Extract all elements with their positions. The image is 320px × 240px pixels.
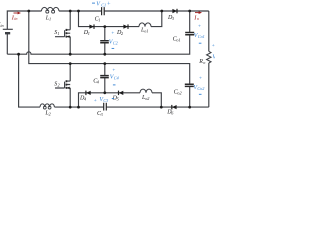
wire bottom rail right segment xyxy=(107,106,209,108)
svg-text:+: + xyxy=(107,1,111,7)
wire D1 branch from top rail xyxy=(79,11,140,27)
wire bottom rail left segment xyxy=(55,106,104,108)
wire Lo1 to top rail corner xyxy=(151,11,162,27)
label VC1 blue xyxy=(92,2,95,4)
battery Vin short plate xyxy=(5,32,10,34)
red current arrows xyxy=(14,11,203,14)
svg-text:4: 4 xyxy=(97,79,99,84)
wire Co1 top lead xyxy=(189,11,191,32)
svg-text:C1: C1 xyxy=(101,2,106,7)
inductor L2 coil xyxy=(40,104,54,107)
junction dots xyxy=(27,10,30,13)
svg-text:o2: o2 xyxy=(145,96,149,101)
svg-text:2: 2 xyxy=(58,82,60,87)
capacitor C1 plates xyxy=(102,7,105,15)
arrow Io xyxy=(195,12,200,14)
svg-text:C2: C2 xyxy=(113,41,118,46)
capacitor C2 plates xyxy=(100,41,109,43)
diode D5 triangle xyxy=(119,91,124,95)
diode D3 triangle xyxy=(172,9,177,13)
resistor Ro zigzag xyxy=(207,51,211,63)
wire rail1 with hop over x28.8 xyxy=(7,35,189,54)
wire Co2 bottom lead xyxy=(189,87,191,108)
inductor L1 coil xyxy=(42,7,59,11)
wire rail2 from top-rail dot down and right xyxy=(29,11,190,84)
wire C4 column xyxy=(104,64,106,93)
svg-text:Co1: Co1 xyxy=(198,34,205,39)
svg-text:Co2: Co2 xyxy=(197,86,204,91)
wire top rail L1 to C1 xyxy=(59,10,102,12)
wire bottom rail to left corner up xyxy=(19,54,40,107)
mosfet S1 gate xyxy=(55,30,65,36)
svg-text:4: 4 xyxy=(84,97,86,102)
wire right vertical above Ro xyxy=(208,11,210,51)
capacitor Co1 plates xyxy=(185,33,194,35)
wire right vertical below Ro xyxy=(208,63,210,107)
svg-text:2: 2 xyxy=(121,31,123,36)
svg-text:+: + xyxy=(111,31,115,37)
battery Vin long plate xyxy=(3,28,13,30)
diode D5 cathode bar xyxy=(118,91,120,96)
svg-text:+: + xyxy=(112,67,116,73)
svg-text:1: 1 xyxy=(49,16,51,21)
diode D4 cathode bar xyxy=(85,91,87,96)
diode D2 cathode bar xyxy=(127,24,129,29)
svg-text:1: 1 xyxy=(58,31,60,36)
wire Lo2 to bottom rail corner xyxy=(152,93,161,107)
battery Vin top lead xyxy=(7,11,41,29)
wire C2 column xyxy=(104,27,106,55)
wire top rail C1 to right corner xyxy=(104,10,209,12)
inductor Lo1 humps xyxy=(139,23,151,27)
mosfet S2 gate xyxy=(55,82,65,88)
svg-text:in: in xyxy=(0,23,3,28)
capacitor C3 plates xyxy=(104,103,107,111)
diode D6 triangle xyxy=(172,105,177,109)
diode D3 cathode bar xyxy=(176,9,178,14)
inductor Lo2 humps xyxy=(140,89,152,93)
svg-text:6: 6 xyxy=(171,111,174,116)
mosfet S1 channel bar xyxy=(65,29,67,38)
svg-text:o: o xyxy=(203,60,205,65)
svg-text:1: 1 xyxy=(98,17,100,22)
svg-text:+: + xyxy=(199,76,203,82)
svg-text:+: + xyxy=(211,43,215,49)
svg-text:o1: o1 xyxy=(144,29,148,34)
mosfet S2 arrow xyxy=(67,87,70,90)
svg-text:C3: C3 xyxy=(103,98,108,103)
mosfet S1 arrow xyxy=(67,35,70,38)
diode D4 triangle xyxy=(86,91,91,95)
capacitor Co2 plates xyxy=(185,84,194,86)
wire D4 branch from bottom rail xyxy=(79,93,141,107)
svg-text:o: o xyxy=(197,16,199,21)
svg-text:C4: C4 xyxy=(114,76,119,81)
mosfet S2 leads xyxy=(67,64,70,108)
diode D1 triangle xyxy=(89,25,94,29)
svg-text:o1: o1 xyxy=(176,38,180,43)
svg-text:o2: o2 xyxy=(177,90,181,95)
mosfet S1 leads xyxy=(67,11,70,54)
svg-text:2: 2 xyxy=(49,112,51,117)
svg-text:+: + xyxy=(198,24,202,30)
svg-text:5: 5 xyxy=(117,97,119,102)
diode D6 cathode bar xyxy=(171,105,173,110)
mosfet S2 channel bar xyxy=(65,80,67,89)
svg-text:1: 1 xyxy=(88,31,90,36)
diode D1 cathode bar xyxy=(93,24,95,29)
diode D2 triangle xyxy=(123,25,128,29)
arrow Iin xyxy=(14,12,19,14)
battery Vin bottom lead xyxy=(6,34,8,54)
svg-text:3: 3 xyxy=(101,112,103,117)
svg-text:3: 3 xyxy=(172,16,174,21)
svg-text:V: V xyxy=(212,55,215,61)
capacitor C4 plates xyxy=(100,76,109,78)
svg-text:+: + xyxy=(93,98,97,104)
svg-text:in: in xyxy=(14,16,17,21)
